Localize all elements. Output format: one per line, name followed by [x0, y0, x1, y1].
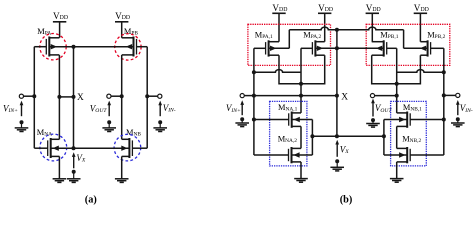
wire M_PA,1 drain down-right to diode node	[279, 55, 301, 83]
red dashed box around M_PA pair	[248, 24, 331, 65]
terminal VIN- (b)	[456, 93, 460, 97]
svg-text:(b): (b)	[340, 195, 353, 206]
wire VIN+ stub	[24, 95, 35, 97]
wire VDD2 to M_PA2 source	[324, 13, 326, 41]
voltage arrow VIN-	[159, 104, 161, 116]
node dot below VIN+ arrow	[20, 120, 24, 124]
junction X bus end	[335, 94, 339, 98]
wire M_NB source to ground	[121, 156, 123, 178]
wire VOUT stub	[111, 95, 122, 97]
voltage arrow VOUT	[108, 104, 110, 116]
transistor M_NB,1 (NMOS, mirrored)	[397, 112, 411, 128]
voltage arrow VIN- (b)	[457, 103, 459, 115]
wire M_PA,1 bulk lead	[269, 47, 290, 49]
voltage arrow VOUT (b)	[372, 102, 374, 117]
wire M_NB,2 gate lead from right rail	[410, 154, 444, 156]
junction node X on column	[299, 94, 303, 98]
wire M_NA,1 source to M_NA,2 drain	[300, 126, 302, 148]
transistor M_PA,2 (PMOS)	[312, 40, 324, 56]
junction left NMOS bulk	[310, 134, 314, 138]
wire right gate rail (b)	[443, 48, 445, 155]
wire M_NB,1 gate lead from right rail	[410, 119, 444, 121]
wire M_NB,2 bulk lead	[384, 154, 407, 156]
junction VIN- on right rail	[145, 94, 149, 98]
wire VIN+ stub (b)	[244, 95, 254, 97]
wire center bulk column (to node X and VX)	[336, 30, 338, 136]
transistor M_PA (PMOS)	[46, 37, 59, 57]
wire gate jumper M_PA,1/M_PA,2 with hop over drain	[254, 70, 301, 73]
wire right drain rail (M_PB drain to M_NB drain)	[121, 55, 123, 139]
node dot below VIN+ arrow (b)	[240, 117, 244, 121]
voltage arrow VX (b)	[336, 143, 338, 157]
blue dashed circle around M_NB	[114, 134, 141, 161]
wire left drain rail (M_PA drain to M_NA drain)	[58, 55, 60, 139]
wire M_PA gate to left rail	[34, 46, 46, 48]
ground below M_NA,2	[294, 179, 308, 183]
voltage arrow VIN+	[21, 104, 23, 116]
junction jumper on left gate rail	[252, 70, 256, 74]
ground below M_NB,2	[390, 179, 404, 183]
wire M_NA,2 bulk lead	[292, 154, 313, 156]
ground below VIN-	[153, 128, 167, 132]
junction right NMOS bulk	[382, 134, 386, 138]
wire VDD right to M_PB source	[121, 22, 123, 38]
blue dashed box around M_NB pair	[391, 101, 427, 165]
wire gate jumper M_PB,1/M_PB,2 with hop over drain	[397, 70, 444, 73]
node junction PMOS bulk / X	[72, 45, 76, 49]
junction VOUT on column	[395, 94, 399, 98]
wire X column	[73, 47, 75, 149]
red dashed box around M_PB pair	[366, 24, 450, 65]
wire M_PB,2 bulk riser	[403, 30, 405, 49]
wire M_NB,1 source to M_NB,2 drain	[396, 126, 398, 148]
junction X / jumper	[72, 95, 76, 99]
junction NMOS bulk / center column	[335, 134, 339, 138]
wire M_PB,1 drain down-right to diode node	[372, 55, 397, 83]
junction mid bulk bus / center column	[335, 46, 339, 50]
wire jumper drain rail to X	[59, 96, 73, 98]
red dashed circle around M_PB	[115, 34, 141, 60]
wire M_PB,2 bulk lead	[404, 47, 428, 49]
wire M_NA,2 gate lead from left rail	[254, 154, 289, 156]
wire M_PA,2 gate lead	[301, 47, 313, 49]
wire VIN- stub	[147, 95, 158, 97]
wire M_NA,1 bulk lead	[292, 119, 313, 121]
ground below VX (b)	[330, 167, 344, 171]
node dot below VIN- arrow (b)	[456, 117, 460, 121]
blue dashed box around M_NA pair	[270, 101, 307, 165]
transistor M_NA,1 (NMOS)	[289, 112, 301, 128]
junction VIN+ on left rail	[32, 94, 36, 98]
wire M_PB,2 gate to right rail	[431, 47, 444, 49]
node dot below VOUT arrow	[107, 120, 111, 124]
junction M_NA,1 gate on left rail	[252, 118, 256, 122]
junction M_NB,1 gate on right rail	[442, 118, 446, 122]
terminal VIN+ (b)	[240, 94, 244, 98]
wire M_PB gate to right rail	[137, 46, 148, 48]
wire top bulk bus with hops over VDD2 and VDD3	[289, 27, 403, 30]
wire M_PA,1 gate to left rail	[254, 47, 266, 49]
wire VDD1 to M_PA1 source	[278, 13, 280, 41]
ground below M_NB	[115, 179, 129, 183]
wire left gate rail (b)	[253, 48, 255, 155]
junction drain rail / jumper	[57, 95, 61, 99]
junction NMOS bulk / X	[72, 146, 76, 150]
wire VDD left to M_PA source	[59, 22, 61, 38]
node dot below VIN- arrow	[158, 120, 162, 124]
wire M_NA,1 gate lead from left rail	[254, 119, 289, 121]
terminal VOUT (a)	[107, 94, 111, 98]
svg-text:X: X	[77, 93, 84, 103]
wire mid bulk bus M_PA,2 to M_PB,1	[315, 47, 383, 49]
wire right gate rail (VIN- input rail)	[146, 47, 148, 149]
ground below VX (a)	[67, 179, 81, 183]
wire left gate rail (VIN+ input rail)	[33, 47, 35, 149]
terminal VIN- (a)	[158, 94, 162, 98]
wire M_NA source to ground	[58, 156, 60, 178]
blue dashed circle around M_NA	[40, 134, 67, 161]
transistor M_PB,1 (PMOS, mirrored)	[372, 40, 387, 56]
red dashed circle around M_PA	[40, 34, 66, 60]
wire M_PB,1 gate lead	[387, 47, 397, 49]
junction diode node A	[299, 82, 303, 86]
svg-text:(a): (a)	[85, 195, 97, 206]
wire NMOS bulk bus (M_NA to M_NB)	[51, 147, 130, 149]
ground below M_NA	[53, 179, 67, 183]
voltage arrow VX (a)	[73, 155, 75, 168]
wire M_PB,2 drain down-left to diode node	[397, 55, 421, 83]
transistor M_NB,2 (NMOS, mirrored)	[397, 147, 411, 163]
ground below VIN+ (b)	[235, 123, 249, 127]
wire VDD4 to M_PB2 source	[419, 13, 421, 41]
terminal VIN+ (a)	[19, 94, 23, 98]
transistor M_PA,1 (PMOS)	[266, 40, 279, 56]
node dot below VX arrow	[72, 170, 76, 174]
junction VIN+ on left rail (b)	[252, 94, 256, 98]
wire M_NB gate to right rail	[132, 147, 147, 149]
terminal VOUT (b)	[370, 94, 374, 98]
wire PMOS bulk bus (M_PA to M_PB)	[49, 46, 133, 48]
wire M_NA,2 source to ground	[300, 162, 302, 179]
transistor M_PB,2 (PMOS, mirrored)	[420, 40, 430, 56]
ground below VIN+	[15, 128, 29, 132]
ground below VOUT	[102, 128, 116, 132]
ground below VIN- (b)	[451, 123, 465, 127]
wire NMOS bulk bus (b)	[312, 135, 384, 137]
wire M_PA,2 gate column to X	[300, 48, 302, 113]
wire VIN- stub (b)	[444, 94, 456, 96]
transistor M_NA (NMOS)	[48, 138, 60, 158]
wire left NMOS bulk column	[311, 120, 313, 156]
wire M_PA,2 drain down-left to diode node	[301, 55, 325, 83]
transistor M_NA,2 (NMOS)	[289, 147, 302, 163]
wire M_PB,1 gate column to VOUT	[396, 48, 398, 113]
wire M_NB,1 bulk lead	[384, 119, 407, 121]
junction jumper on right gate rail	[442, 70, 446, 74]
svg-text:X: X	[341, 92, 348, 102]
node dot below VOUT arrow (b)	[371, 118, 375, 122]
ground below VOUT (b)	[366, 124, 380, 128]
wire M_NB,2 source to ground	[396, 162, 398, 179]
junction top bulk bus / center column	[335, 28, 339, 32]
wire node X bus (b)	[254, 95, 337, 97]
junction diode node B	[395, 82, 399, 86]
voltage arrow VIN+ (b)	[241, 103, 243, 115]
wire M_PA,1 bulk riser	[288, 30, 290, 49]
wire VDD3 to M_PB1 source	[371, 13, 373, 41]
wire M_NA gate to left rail	[34, 147, 47, 149]
junction VIN- on right rail (b)	[442, 93, 446, 97]
wire right NMOS bulk column	[383, 120, 385, 156]
wire VOUT stub (b)	[375, 95, 397, 97]
node dot below VX arrow (b)	[335, 159, 339, 163]
transistor M_PB (PMOS, mirrored)	[122, 37, 137, 57]
junction VOUT on right drain rail	[120, 94, 124, 98]
transistor M_NB (NMOS, mirrored)	[122, 138, 133, 158]
